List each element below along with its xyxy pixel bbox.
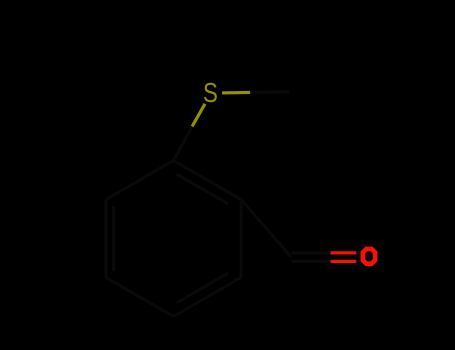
wire: ring bond C5-C6 inner aromatic line (112, 206, 115, 271)
wire: ring bond C3-C4 (bottom-right diagonal) (174, 278, 242, 317)
wire: ring bond C5-C6 (left vertical) (105, 200, 108, 278)
wire: C=O double bond upper line carbon half (dark) (292, 251, 331, 254)
atom label S (sulfur) (203, 77, 218, 109)
wire: ring bond C2-C3 (right vertical) (240, 200, 243, 278)
atom label O (oxygen) octagonal ring glyph (363, 249, 375, 264)
wire: bond S-CH3 carbon half (dark) (250, 90, 289, 94)
wire: C=O double bond lower line carbon half (dark) (292, 260, 331, 263)
wire: ring bond C3-C4 inner aromatic line (177, 273, 229, 303)
wire: bond S-C1 carbon half (dark) (174, 127, 193, 161)
wire: bond S-CH3 sulfur half (yellow) (222, 91, 250, 95)
wire: bond S-C1 sulfur half (yellow) (192, 104, 205, 127)
wire: ring bond C1-C2 (top-right diagonal) (174, 161, 242, 200)
wire: ring bond C6-C1 (top-left diagonal) (106, 161, 174, 200)
wire: C=O double bond lower line oxygen half (red) (331, 260, 357, 263)
wire: ring bond C4-C5 (bottom-left diagonal) (106, 278, 174, 317)
wire: C=O double bond upper line oxygen half (red) (331, 251, 357, 254)
wire: ring bond C1-C2 inner aromatic line (177, 174, 229, 204)
wire: bond C2 to carbonyl carbon (241, 200, 291, 257)
